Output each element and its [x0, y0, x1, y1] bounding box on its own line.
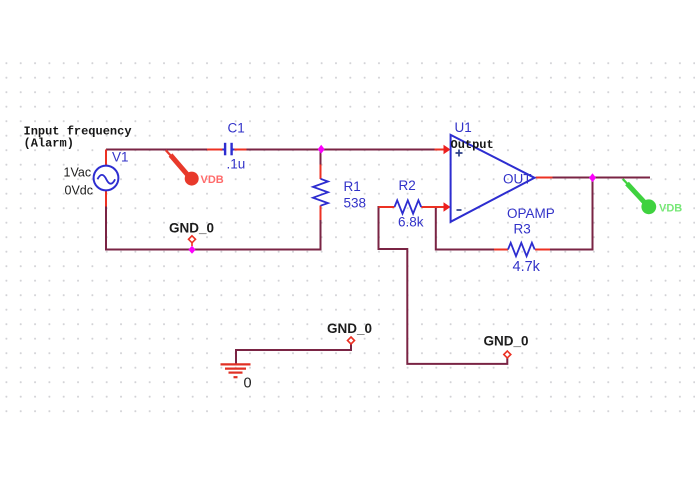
pin R2 right to U1 minus: [421, 206, 444, 208]
resistor R1: [313, 179, 328, 206]
pin R3 right: [535, 249, 550, 251]
wire GND_0 middle left: [236, 344, 351, 364]
wire bottom from V1 to R1: [105, 249, 322, 251]
capacitor C1: [222, 143, 234, 156]
svg-text:R2: R2: [399, 178, 416, 193]
op-amp U1: [451, 135, 535, 222]
pin U1 output: [536, 177, 553, 179]
junction at GND_0 on bottom wire: [188, 246, 195, 254]
svg-text:GND_0: GND_0: [484, 334, 529, 349]
resistor R3: [508, 243, 535, 256]
arrowhead U1 plus: [444, 145, 451, 155]
wire top from V1 to C1: [106, 149, 207, 151]
wire minus input down: [436, 208, 495, 250]
wire to GND_0 right: [407, 248, 507, 364]
GND_0 pin diamond right: [504, 351, 511, 358]
pin R1 top: [320, 165, 322, 180]
pin V1 top: [105, 150, 107, 166]
pin C1 left: [207, 149, 223, 151]
op-amp plus mark: [456, 150, 463, 157]
junction at C1-R1 node: [318, 145, 325, 154]
pin U1 plus input: [435, 149, 445, 151]
GND_0 pin diamond on bottom wire: [189, 236, 196, 246]
pin R3 left: [494, 249, 508, 251]
voltage source V1: [94, 166, 119, 191]
svg-text:6.8k: 6.8k: [398, 215, 424, 230]
probe VDB red: [166, 150, 224, 186]
pin V1 bottom: [105, 191, 107, 207]
wire R1 bottom stub: [320, 220, 322, 251]
svg-text:Output: Output: [451, 138, 494, 152]
arrowhead U1 minus: [444, 202, 451, 212]
svg-text:.1u: .1u: [227, 157, 246, 172]
svg-text:GND_0: GND_0: [169, 221, 214, 236]
svg-text:OUT: OUT: [503, 172, 532, 187]
pin C1 right: [234, 149, 247, 151]
svg-text:C1: C1: [228, 121, 245, 136]
wire R3 to feedback corner: [550, 178, 593, 250]
svg-text:U1: U1: [455, 120, 472, 135]
pin R2 left: [379, 206, 395, 208]
svg-text:V1: V1: [112, 150, 129, 165]
svg-text:0: 0: [244, 376, 252, 392]
svg-text:R3: R3: [514, 222, 531, 237]
svg-text:VDB: VDB: [659, 203, 682, 215]
wire top from C1 to op-amp: [247, 149, 435, 151]
wire R1 top stub: [320, 151, 322, 165]
svg-text:1Vac: 1Vac: [64, 166, 92, 180]
ground 0 symbol: [221, 364, 251, 377]
svg-text:4.7k: 4.7k: [513, 259, 541, 275]
probe VDB green: [623, 179, 682, 215]
pin R1 bottom: [320, 206, 322, 221]
svg-text:538: 538: [344, 196, 367, 211]
svg-text:GND_0: GND_0: [327, 321, 372, 336]
svg-text:0Vdc: 0Vdc: [65, 184, 94, 198]
svg-text:R1: R1: [344, 179, 361, 194]
wire R2 left down: [379, 206, 408, 249]
svg-text:(Alarm): (Alarm): [24, 137, 74, 151]
op-amp minus mark: [457, 209, 462, 211]
junction at output node: [589, 173, 596, 182]
svg-text:OPAMP: OPAMP: [507, 206, 555, 221]
wire op-amp output: [552, 177, 650, 179]
GND_0 pin diamond middle: [348, 337, 355, 344]
resistor R2: [395, 200, 422, 213]
svg-text:VDB: VDB: [201, 174, 224, 186]
wire V1 left vertical: [105, 207, 107, 251]
